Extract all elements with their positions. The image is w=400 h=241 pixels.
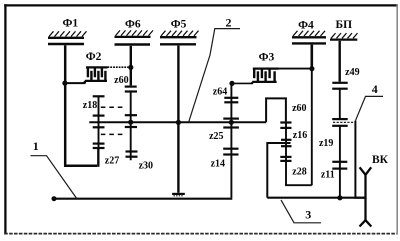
svg-text:z18: z18 — [83, 100, 97, 111]
svg-text:z28: z28 — [292, 167, 306, 178]
gear column z60/z16/z28 with corner to F4 shaft — [286, 121, 312, 185]
mesh dashes z18-z60 — [101, 106, 126, 108]
svg-text:ВК: ВК — [372, 154, 389, 166]
gear column z64/z25/z14 with corner to shaft 1 line — [230, 83, 232, 197]
P-bracket from shaft 2 end up to z60 gear — [266, 98, 286, 122]
brake F4 — [292, 31, 326, 44]
svg-text:z27: z27 — [105, 155, 119, 166]
gear z49 — [339, 89, 341, 119]
svg-text:1: 1 — [33, 139, 39, 153]
node: z64 column on shaft 2 — [229, 120, 234, 125]
brake BP — [330, 33, 358, 40]
svg-text:z14: z14 — [211, 158, 225, 169]
svg-text:z64: z64 — [213, 86, 227, 97]
svg-text:z19: z19 — [319, 138, 333, 149]
clutch F2 — [65, 67, 128, 83]
gear column z60/z30 — [130, 92, 132, 161]
svg-text:Ф2: Ф2 — [86, 51, 102, 63]
shaft 1 bottom line — [54, 198, 232, 200]
node: F3 line on F4 shaft — [309, 66, 314, 71]
gear z18 caps — [93, 95, 105, 97]
gear z27 caps — [93, 126, 105, 128]
svg-text:Ф6: Ф6 — [125, 18, 141, 30]
leader 4 — [355, 96, 383, 120]
svg-text:z11: z11 — [321, 170, 335, 181]
gear column z18/z27 sleeve — [98, 96, 100, 165]
svg-text:Ф1: Ф1 — [62, 18, 78, 30]
gear z14 top cap — [223, 153, 238, 155]
gear z25 caps — [223, 126, 239, 128]
gear z11 cap — [332, 168, 347, 170]
svg-text:2: 2 — [226, 15, 232, 29]
brake F6 — [115, 30, 154, 44]
bracket from z16 hub down to shaft 3 line — [267, 143, 290, 198]
shaft of F4 — [310, 45, 313, 69]
svg-text:z16: z16 — [293, 130, 307, 141]
svg-text:z30: z30 — [139, 160, 153, 171]
shaft 3 bottom line — [267, 197, 365, 199]
shaft of BP — [339, 41, 341, 82]
gear column z19/z11 — [339, 126, 341, 198]
svg-text:Ф4: Ф4 — [298, 19, 314, 31]
mesh dashes z27-z30 — [101, 133, 126, 135]
node: F1 shaft / F2 hub junction — [62, 81, 67, 86]
F5 shaft foot bearing — [172, 193, 185, 195]
svg-text:z60: z60 — [114, 75, 128, 86]
svg-text:z60: z60 — [292, 103, 306, 114]
node: z49 column on shaft 3 line — [337, 195, 342, 200]
svg-text:z49: z49 — [345, 67, 359, 78]
gear z60 caps — [125, 90, 137, 92]
svg-text:z25: z25 — [209, 131, 223, 142]
svg-text:БП: БП — [336, 19, 353, 31]
gear z28 caps — [280, 156, 291, 158]
cardan shaft VK — [360, 167, 372, 226]
svg-text:Ф5: Ф5 — [171, 18, 187, 30]
gear z19 caps — [332, 125, 348, 127]
brake F5 — [160, 31, 199, 45]
connector z49 hub to shaft 4 — [333, 121, 356, 123]
leader 3 — [281, 200, 321, 223]
node: F5 shaft on shaft 2 — [176, 120, 181, 125]
brake F1 — [48, 31, 87, 44]
svg-text:3: 3 — [305, 207, 311, 221]
gear z30 caps — [125, 126, 137, 128]
gear z60 right caps — [280, 121, 291, 123]
shaft of F6 — [130, 46, 132, 86]
F6 shaft end cap — [125, 85, 137, 87]
node: z60/z30 column on shaft 2 — [128, 120, 133, 125]
shaft 4 — [355, 121, 365, 198]
node: F2 line on F6 shaft — [128, 65, 133, 70]
gear z64 caps — [224, 97, 238, 99]
clutch F3 — [232, 69, 310, 84]
leader 1 — [31, 156, 77, 199]
svg-text:Ф3: Ф3 — [259, 51, 275, 63]
BP shaft end cap — [332, 82, 347, 84]
gear z16 caps — [281, 139, 292, 141]
shaft of F1 with bottom bracket to z27 sleeve — [65, 45, 97, 166]
node: shaft 1 left end — [52, 196, 57, 201]
svg-text:4: 4 — [372, 82, 378, 96]
node: F3 hub on z64 column — [229, 81, 234, 86]
shaft of F5 — [177, 46, 179, 193]
shaft 2 main line — [89, 121, 266, 123]
leader 2 — [189, 29, 240, 123]
